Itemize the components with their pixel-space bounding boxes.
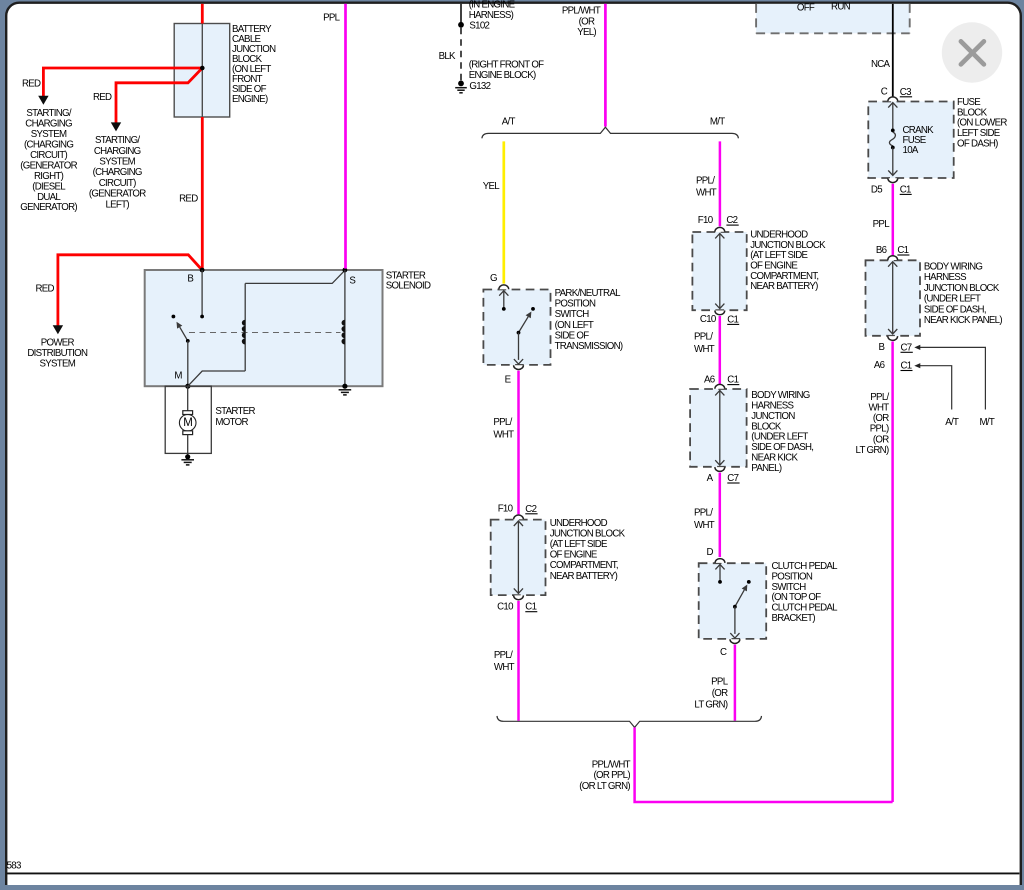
svg-text:C1: C1 xyxy=(897,245,908,256)
svg-text:GENERATOR): GENERATOR) xyxy=(20,202,77,213)
svg-text:UNDERHOOD: UNDERHOOD xyxy=(550,518,608,529)
svg-text:(OR: (OR xyxy=(712,688,728,699)
svg-text:YEL): YEL) xyxy=(577,27,596,38)
svg-text:C1: C1 xyxy=(727,375,738,386)
svg-text:C10: C10 xyxy=(700,314,717,325)
svg-text:BRACKET): BRACKET) xyxy=(772,613,816,624)
svg-text:(GENERATOR: (GENERATOR xyxy=(89,189,146,200)
svg-text:C3: C3 xyxy=(900,87,911,98)
svg-text:RED: RED xyxy=(35,283,54,294)
svg-text:(OR: (OR xyxy=(579,17,595,28)
svg-text:C7: C7 xyxy=(901,342,912,353)
svg-text:NEAR BATTERY): NEAR BATTERY) xyxy=(750,281,818,292)
svg-text:BODY WIRING: BODY WIRING xyxy=(924,261,982,272)
svg-text:(IN ENGINE: (IN ENGINE xyxy=(469,0,516,10)
svg-text:C2: C2 xyxy=(525,504,536,515)
svg-text:PARK/NEUTRAL: PARK/NEUTRAL xyxy=(555,288,621,299)
svg-text:(CHARGING: (CHARGING xyxy=(24,140,73,151)
svg-text:(OR PPL): (OR PPL) xyxy=(594,770,631,781)
svg-text:SWITCH: SWITCH xyxy=(555,309,590,320)
svg-text:WHT: WHT xyxy=(493,430,514,441)
svg-text:POSITION: POSITION xyxy=(555,299,596,310)
svg-text:C1: C1 xyxy=(901,361,912,372)
svg-text:SOLENOID: SOLENOID xyxy=(386,281,431,292)
svg-text:(RIGHT FRONT OF: (RIGHT FRONT OF xyxy=(469,60,544,71)
svg-text:F10: F10 xyxy=(498,504,514,515)
svg-text:HARNESS: HARNESS xyxy=(924,272,967,283)
svg-text:PPL: PPL xyxy=(323,12,341,23)
svg-text:PPL/: PPL/ xyxy=(494,650,513,661)
svg-text:SYSTEM: SYSTEM xyxy=(39,359,75,370)
svg-text:M/T: M/T xyxy=(980,417,995,428)
svg-text:C10: C10 xyxy=(497,602,514,613)
svg-text:B6: B6 xyxy=(876,245,887,256)
svg-text:PPL/: PPL/ xyxy=(493,417,512,428)
svg-text:A6: A6 xyxy=(704,374,715,385)
svg-text:(OR: (OR xyxy=(873,413,889,424)
svg-text:M: M xyxy=(174,371,182,382)
svg-text:JUNCTION: JUNCTION xyxy=(751,411,795,422)
svg-text:JUNCTION BLOCK: JUNCTION BLOCK xyxy=(924,283,1000,294)
svg-text:MOTOR: MOTOR xyxy=(215,417,248,428)
svg-text:SIDE OF DASH,: SIDE OF DASH, xyxy=(924,304,986,315)
svg-text:JUNCTION BLOCK: JUNCTION BLOCK xyxy=(750,240,826,251)
svg-text:WHT: WHT xyxy=(696,188,717,199)
svg-text:JUNCTION BLOCK: JUNCTION BLOCK xyxy=(550,529,626,540)
svg-text:NEAR BATTERY): NEAR BATTERY) xyxy=(550,571,618,582)
svg-text:BLK: BLK xyxy=(439,51,456,62)
svg-text:S102: S102 xyxy=(469,20,489,31)
svg-text:CHARGING: CHARGING xyxy=(25,119,72,130)
svg-text:STARTER: STARTER xyxy=(215,406,255,417)
svg-text:(ON LEFT: (ON LEFT xyxy=(555,320,594,331)
svg-text:C2: C2 xyxy=(726,215,737,226)
svg-text:STARTING/: STARTING/ xyxy=(95,135,140,146)
svg-text:(AT LEFT SIDE: (AT LEFT SIDE xyxy=(750,250,808,261)
svg-text:D5: D5 xyxy=(871,184,882,195)
svg-text:C1: C1 xyxy=(727,314,738,325)
svg-text:LEFT): LEFT) xyxy=(105,199,129,210)
svg-text:10A: 10A xyxy=(903,145,919,156)
svg-text:PPL): PPL) xyxy=(870,424,889,435)
svg-text:TRANSMISSION): TRANSMISSION) xyxy=(555,341,623,352)
svg-text:(OR: (OR xyxy=(873,434,889,445)
svg-text:DUAL: DUAL xyxy=(37,192,61,203)
svg-text:A6: A6 xyxy=(874,360,885,371)
svg-text:D: D xyxy=(707,547,714,558)
svg-text:CLUTCH PEDAL: CLUTCH PEDAL xyxy=(772,603,839,614)
svg-text:C1: C1 xyxy=(525,602,536,613)
svg-text:OFF: OFF xyxy=(797,3,815,14)
svg-text:SIDE OF: SIDE OF xyxy=(555,330,590,341)
svg-text:(OR LT GRN): (OR LT GRN) xyxy=(579,781,630,792)
svg-text:RED: RED xyxy=(93,92,112,103)
svg-text:LT GRN): LT GRN) xyxy=(856,445,889,456)
svg-text:G132: G132 xyxy=(469,81,490,92)
svg-text:M/T: M/T xyxy=(710,116,725,127)
svg-text:CHARGING: CHARGING xyxy=(94,146,141,157)
svg-text:NEAR KICK: NEAR KICK xyxy=(751,453,798,464)
svg-text:ENGINE): ENGINE) xyxy=(232,94,268,105)
svg-text:A/T: A/T xyxy=(502,116,516,127)
svg-text:OF DASH): OF DASH) xyxy=(957,138,998,149)
svg-text:SYSTEM: SYSTEM xyxy=(99,157,135,168)
svg-text:(UNDER LEFT: (UNDER LEFT xyxy=(751,432,808,443)
svg-text:WHT: WHT xyxy=(869,403,890,414)
svg-text:PPL/WHT: PPL/WHT xyxy=(592,760,631,771)
svg-text:HARNESS: HARNESS xyxy=(751,401,794,412)
svg-text:BODY WIRING: BODY WIRING xyxy=(751,390,809,401)
svg-text:NCA: NCA xyxy=(871,59,891,70)
svg-text:C1: C1 xyxy=(900,184,911,195)
svg-text:RIGHT): RIGHT) xyxy=(34,171,64,182)
svg-text:PPL: PPL xyxy=(711,676,729,687)
svg-text:(CHARGING: (CHARGING xyxy=(93,167,142,178)
svg-text:PPL/: PPL/ xyxy=(694,508,713,519)
svg-text:STARTING/: STARTING/ xyxy=(26,108,71,119)
svg-text:C7: C7 xyxy=(727,473,738,484)
svg-text:RUN: RUN xyxy=(831,1,851,12)
svg-text:B: B xyxy=(879,342,885,353)
svg-text:POWER: POWER xyxy=(41,338,75,349)
svg-text:PPL/: PPL/ xyxy=(870,392,889,403)
svg-text:OF ENGINE: OF ENGINE xyxy=(550,550,598,561)
svg-text:CLUTCH PEDAL: CLUTCH PEDAL xyxy=(772,561,839,572)
svg-text:PPL/WHT: PPL/WHT xyxy=(562,5,601,16)
svg-text:CIRCUIT): CIRCUIT) xyxy=(99,178,136,189)
svg-text:PPL/: PPL/ xyxy=(694,332,713,343)
svg-text:(AT LEFT SIDE: (AT LEFT SIDE xyxy=(550,539,608,550)
svg-text:SIDE OF DASH,: SIDE OF DASH, xyxy=(751,442,813,453)
svg-text:SWITCH: SWITCH xyxy=(772,582,807,593)
svg-text:DISTRIBUTION: DISTRIBUTION xyxy=(27,348,88,359)
svg-text:WHT: WHT xyxy=(694,344,715,355)
svg-text:(DIESEL: (DIESEL xyxy=(32,181,66,192)
svg-text:RED: RED xyxy=(179,193,198,204)
svg-text:G: G xyxy=(490,273,497,284)
svg-text:LT GRN): LT GRN) xyxy=(694,700,727,711)
svg-text:583: 583 xyxy=(7,860,21,871)
svg-text:A/T: A/T xyxy=(945,417,959,428)
svg-text:C: C xyxy=(720,647,727,658)
svg-text:RED: RED xyxy=(22,78,41,89)
svg-text:YEL: YEL xyxy=(483,181,501,192)
svg-text:(UNDER LEFT: (UNDER LEFT xyxy=(924,294,981,305)
svg-text:CIRCUIT): CIRCUIT) xyxy=(30,150,67,161)
svg-text:PANEL): PANEL) xyxy=(751,463,782,474)
svg-text:PPL/: PPL/ xyxy=(696,176,715,187)
svg-text:POSITION: POSITION xyxy=(772,571,813,582)
svg-text:C: C xyxy=(881,87,888,98)
svg-text:(GENERATOR: (GENERATOR xyxy=(20,160,77,171)
svg-text:ENGINE BLOCK): ENGINE BLOCK) xyxy=(469,70,536,81)
svg-text:M: M xyxy=(183,417,192,429)
svg-text:NEAR KICK PANEL): NEAR KICK PANEL) xyxy=(924,315,1002,326)
svg-text:F10: F10 xyxy=(698,215,714,226)
svg-text:SYSTEM: SYSTEM xyxy=(31,129,67,140)
svg-text:BLOCK: BLOCK xyxy=(751,421,782,432)
svg-text:B: B xyxy=(187,274,193,285)
svg-text:(ON TOP OF: (ON TOP OF xyxy=(772,592,822,603)
svg-text:PPL: PPL xyxy=(873,219,891,230)
svg-text:COMPARTMENT,: COMPARTMENT, xyxy=(550,560,618,571)
svg-text:WHT: WHT xyxy=(494,662,515,673)
svg-text:WHT: WHT xyxy=(694,520,715,531)
